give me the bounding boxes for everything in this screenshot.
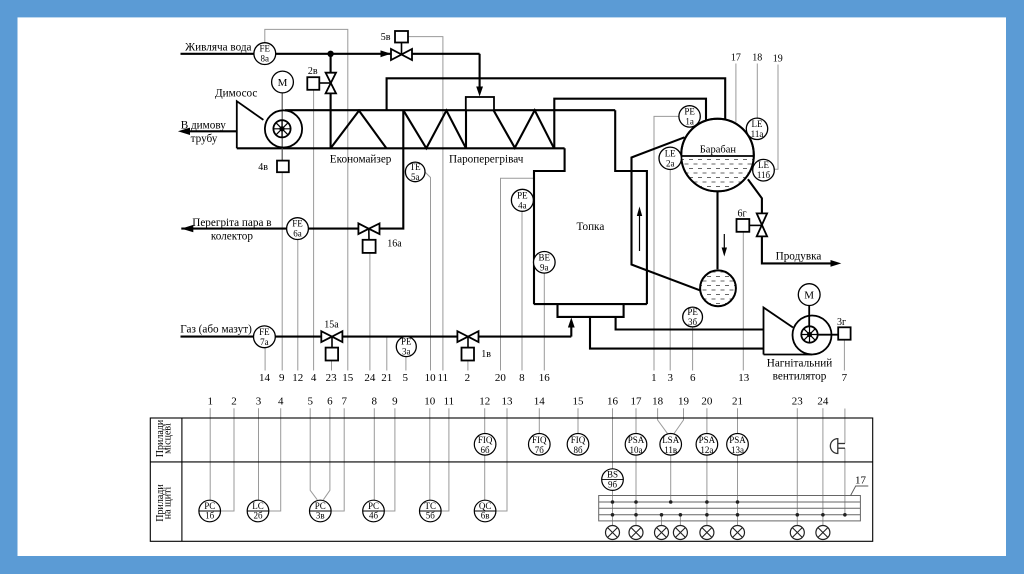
instrument FE 8a [254,43,276,65]
wire LSA-11v to bus [670,455,672,502]
signal bus frame [599,496,861,521]
instrument PSA 10a [625,434,647,456]
svg-text:PE: PE [684,106,695,116]
wire 20 from furnace corner [501,178,535,370]
bus node [736,500,740,504]
draft fan shaft to box 3g [818,334,839,336]
wire 6 from PE 3b [692,327,694,371]
svg-text:9а: 9а [540,262,549,272]
valve 5v with box above [391,31,412,60]
instrument PE 4a [511,189,533,211]
arrow burner up [568,318,575,328]
svg-text:3в: 3в [316,511,325,521]
rotated headers [155,419,174,522]
svg-text:14: 14 [259,372,271,384]
bus label 17 [851,486,869,496]
svg-text:1: 1 [651,372,657,384]
air duct bottom wall [590,317,764,349]
column 24 wire to bus [822,408,824,515]
instrument FIQ 8b [567,434,589,456]
bell symbol [830,439,837,454]
svg-text:7: 7 [842,372,848,384]
svg-text:1а: 1а [685,116,694,126]
bus node lower [634,513,638,517]
svg-text:13: 13 [502,396,514,408]
svg-text:1в: 1в [481,349,491,360]
feed water drop to injection box [479,54,481,92]
svg-text:15: 15 [342,372,354,384]
svg-text:10: 10 [424,396,436,408]
economizer inlet pipe lower [330,93,332,148]
actuator box 3g [838,327,850,339]
instrument LE 2a [659,147,681,169]
table frame [150,418,872,541]
injection box down pipe [465,110,467,148]
instrument FE 7a [254,326,276,348]
label FE 8a [260,44,271,64]
lamp 4 [673,526,687,540]
bus node lower [796,513,800,517]
column 7 wire to PC-3v side [331,408,344,511]
svg-text:18: 18 [752,53,762,64]
midline PC 4b [363,510,385,512]
duct step to furnace left wall [534,148,565,304]
bus node lower [843,513,847,517]
duct end wall and furnace right wall [615,110,647,304]
instrument PE 3b [683,307,703,327]
svg-text:16: 16 [539,372,551,384]
bus node lower [679,513,683,517]
smoke exhauster volute [265,110,302,147]
svg-text:13а: 13а [731,445,744,455]
downcomer flow arrowhead [722,248,727,257]
svg-text:BE: BE [539,252,551,262]
svg-text:5: 5 [307,396,313,408]
label PSA 12a [699,435,716,455]
column 10 wire to TC-5b [429,408,431,500]
label BS 9b [607,469,618,489]
svg-text:8б: 8б [573,445,583,455]
table row divider [150,461,872,463]
wire BS-9b to bus and lamp [612,490,614,525]
smoke exhauster housing [237,101,264,148]
svg-text:Перегріта пара в: Перегріта пара в [192,217,271,229]
svg-text:LE: LE [758,160,769,170]
motor M smoke exhauster [272,71,294,93]
instrument PC 1b [199,500,221,522]
label PSA 10a [628,435,645,455]
wire 24 from valve box 16a [369,253,371,371]
steam pipe drum to superheater [554,99,706,148]
wire 15 from FE 8a [265,29,348,370]
instrument QC 6v [474,500,496,522]
economizer coil zigzag [331,111,387,149]
valve 1v with box below [457,331,478,360]
svg-text:Продувка: Продувка [776,250,822,262]
flue duct bottom wall [237,147,565,149]
steam drum [681,119,754,192]
wire 10 from TE 5a [425,172,431,371]
column 8 wire to PC-4b [373,408,375,500]
svg-text:19: 19 [678,396,690,408]
bus node [669,500,673,504]
svg-text:6: 6 [690,372,696,384]
instrument TE 5a [405,162,425,182]
feed water pipe [181,53,392,55]
svg-text:колектор: колектор [211,230,253,242]
svg-text:19: 19 [773,54,783,65]
svg-text:17: 17 [855,475,867,487]
draft fan impeller [801,326,817,342]
wire 14 from FE 7a [264,348,266,371]
wire 19 to LE 11b [775,65,778,170]
arrow feed water [381,50,392,57]
column 9 wire to PC-4b side [384,408,395,511]
wire PSA-12a to bus and lamp [706,455,708,526]
superheated steam pipe to collector [181,228,358,230]
arrow to chimney [178,128,190,135]
svg-text:Газ (або мазут): Газ (або мазут) [180,324,252,336]
midline PC 3v [310,510,332,512]
svg-text:LE: LE [752,119,763,129]
svg-text:QC: QC [479,501,492,511]
label LE 11a [751,119,764,139]
lamp 1 [606,526,620,540]
label FE 7a [259,327,270,347]
bus node lower [611,513,615,517]
draft fan volute [793,316,832,355]
svg-text:16: 16 [607,396,619,408]
flow arrows on pipes [178,50,841,327]
svg-text:В димову: В димову [181,119,227,131]
column 18 wire V to LSA-11v [658,408,668,433]
bus node [634,500,638,504]
wire 18 to LE 11a [756,64,758,119]
lamp 2 [629,526,643,540]
column 13 wire to QC-6v side [496,408,507,511]
column 4 wire to LC-2b side [269,408,281,511]
svg-text:11а: 11а [751,129,764,139]
svg-text:PE: PE [687,307,698,317]
svg-text:21: 21 [381,372,392,384]
lamp 5 [700,526,714,540]
bus node [705,500,709,504]
wire 11 from valve box 5v [408,37,443,371]
draft fan housing [764,308,794,330]
instrument TC 5b [420,500,442,522]
svg-text:Економайзер: Економайзер [330,154,392,166]
table instrument circles [199,434,748,522]
blowdown pipe upper [748,179,762,213]
label PE 1a [684,106,695,126]
feed water pipe after valve 5v [412,53,480,55]
label LE 2a [665,148,676,168]
arrow superheated steam [181,225,193,232]
svg-text:LSA: LSA [662,435,680,445]
impeller hub [279,126,284,131]
instrument PC 3v [310,500,332,522]
lamp stub wire [679,515,681,526]
flue duct top wall [285,109,615,111]
superheater coil zigzag 1 [403,110,466,148]
draft fan motor link [808,306,810,327]
instrument PE 3a [396,337,416,357]
smoke exhauster impeller [273,120,290,137]
instrument FE 6a [287,218,309,240]
svg-text:PSA: PSA [729,435,746,445]
svg-text:3а: 3а [402,347,411,357]
svg-text:3б: 3б [688,317,698,327]
svg-text:Топка: Топка [576,221,604,233]
bus conductor line [599,501,861,503]
burner plenum box [558,304,624,317]
svg-text:3г: 3г [837,317,846,328]
midline LC 2b [247,510,269,512]
bus node lower [705,513,709,517]
svg-text:4: 4 [311,372,317,384]
bus node lower [660,513,664,517]
svg-text:3: 3 [256,396,262,408]
svg-text:2: 2 [231,396,237,408]
table header divider [181,418,183,541]
svg-text:PE: PE [517,190,528,200]
svg-text:FE: FE [260,44,271,54]
label PE 3a [401,337,412,357]
instrument LE 11b [753,159,775,181]
instrument BS 9b [602,469,624,491]
svg-text:PSA: PSA [628,435,645,445]
svg-text:4в: 4в [258,162,268,173]
svg-text:6: 6 [327,396,333,408]
valve 6g vertical with box left [737,213,768,236]
arrow into injection box [476,87,483,97]
svg-text:вентилятор: вентилятор [773,371,827,383]
svg-text:8: 8 [519,372,525,384]
svg-text:16а: 16а [387,239,402,250]
svg-text:М: М [804,290,814,302]
lamp 6 [731,526,745,540]
bus node lower [821,513,825,517]
svg-text:5: 5 [403,372,409,384]
svg-text:4: 4 [278,396,284,408]
column numbers [207,396,828,408]
injection header box [466,97,494,110]
column 2 wire to PC-1b side [221,408,235,511]
downcomer flow arrow shaft [723,234,725,250]
svg-text:12: 12 [292,372,303,384]
svg-text:Живляча вода: Живляча вода [185,41,251,53]
label LE 11b [757,160,771,180]
wire 8 from PE 4a [521,211,523,370]
wire 4 from valve box 2v [313,90,315,371]
drum water fill [682,156,754,191]
column 15 wire to FIQ-8b [577,408,579,433]
wire 7 continuation to bell and bus [844,409,846,444]
steam drum outline [681,119,754,192]
chimney pipe [182,130,237,132]
bus conductor line 2 [599,507,861,509]
air duct top wall [616,317,764,330]
svg-text:Нагнітальний: Нагнітальний [767,357,832,369]
svg-text:11: 11 [444,396,455,408]
svg-text:FIQ: FIQ [532,435,547,445]
wire 1 from PE 1a [654,116,679,370]
svg-text:LE: LE [665,148,676,158]
chimney / superheated steam arrow lines [182,130,237,132]
label TC 5b [425,501,437,521]
column 17 wire to PSA-10a [635,408,637,433]
svg-text:4б: 4б [369,511,379,521]
svg-text:3: 3 [668,372,674,384]
svg-text:17: 17 [731,53,741,64]
svg-text:5в: 5в [381,32,391,43]
arrow blowdown right [831,260,842,267]
table circle labels [204,435,746,521]
economizer outlet pipe to drum [387,78,726,119]
svg-text:6в: 6в [481,511,490,521]
svg-text:7б: 7б [535,445,545,455]
svg-text:BS: BS [607,469,618,479]
svg-text:LC: LC [252,501,264,511]
svg-text:13: 13 [738,372,750,384]
wire FIQ-6b to QC-6v [484,455,486,500]
svg-text:12: 12 [479,396,490,408]
svg-text:1б: 1б [205,511,215,521]
lower drum [700,270,736,306]
bus label leader [851,486,869,496]
svg-text:FE: FE [259,327,270,337]
svg-text:9: 9 [392,396,398,408]
wire 2 from valve box 1v [467,361,469,371]
column 14 wire to FIQ-7b [538,408,540,433]
svg-text:11: 11 [438,372,449,384]
svg-text:Барабан: Барабан [700,144,737,155]
riser flow arrowhead [637,207,642,217]
wire 13 from valve box 6g [742,232,744,371]
motor M draft fan [798,284,820,306]
label BE 9a [539,252,551,272]
bus conductor line 3 [599,514,861,516]
svg-text:трубу: трубу [191,133,218,145]
column 23 wire to bus [796,408,798,515]
svg-text:8а: 8а [261,54,270,64]
riser channel wall [632,137,700,290]
svg-text:12а: 12а [700,445,713,455]
label TE 5a [410,162,421,182]
midline BS 9b [602,479,624,481]
svg-text:11в: 11в [664,445,677,455]
lamp 3 [655,526,669,540]
svg-text:14: 14 [534,396,546,408]
superheater outlet pipe [380,110,404,228]
svg-text:6г: 6г [737,208,746,219]
svg-text:5а: 5а [411,172,420,182]
valve 2v vertical with box left [307,73,336,94]
column 11 wire to TC-5b side [441,408,449,511]
label LSA 11v [662,435,680,455]
svg-text:7: 7 [341,396,347,408]
wire 5 from PE 3a [405,357,407,371]
svg-text:8: 8 [372,396,378,408]
valve 15a with box below [321,331,342,360]
svg-text:місцеві: місцеві [163,423,174,454]
superheater coil zigzag 2 [494,110,554,148]
wire PSA-13a to bus and lamp [737,455,739,526]
midline QC 6v [474,510,496,512]
midline TC 5b [420,510,442,512]
svg-text:7а: 7а [260,337,269,347]
column 12 wire to FIQ-6b [484,408,486,433]
wire 12 from FE 6a [297,240,299,371]
svg-text:15: 15 [573,396,585,408]
column 5 wire V to PC-3v [310,408,317,500]
column 1 wire to PC-1b [209,408,211,500]
svg-text:Пароперегрівач: Пароперегрівач [449,154,524,166]
economizer inlet pipe upper [330,54,332,73]
svg-text:21: 21 [732,396,743,408]
label FIQ 7b [532,435,547,455]
instrument BE 9a [534,251,556,273]
impeller spokes [281,120,283,137]
label PC 4b [368,501,379,521]
wire 16 from BE 9a [543,273,545,370]
instrument PE 1a [679,106,700,127]
instrument LE 11a [746,118,767,139]
svg-text:FIQ: FIQ [478,435,493,445]
svg-text:15а: 15а [324,320,339,331]
lamp stub wire [796,515,798,526]
draft fan impeller spokes [809,326,811,342]
svg-text:23: 23 [326,372,338,384]
draft fan housing left wall [763,330,765,355]
svg-text:24: 24 [364,372,376,384]
label LC 2b [252,501,264,521]
svg-text:23: 23 [792,396,804,408]
motor letters [278,77,815,302]
column 21 wire to PSA-13a [737,408,739,433]
gas pipe [181,336,572,338]
svg-text:PC: PC [368,501,379,511]
bus node lower [736,513,740,517]
riser/downcomer small arrows [640,213,725,251]
svg-text:10: 10 [425,372,437,384]
motor shaft left fan [281,93,283,161]
column 16 wire to BS-9b [612,408,614,469]
svg-text:10а: 10а [630,445,643,455]
svg-text:М: М [278,77,288,89]
instrument PC 4b [363,500,385,522]
svg-text:5б: 5б [426,511,436,521]
wire 17 to drum [735,64,737,123]
bus connection dots [611,500,847,516]
svg-text:18: 18 [652,396,664,408]
downcomer pipe [716,192,718,269]
instrument labels [259,44,770,357]
label QC 6v [479,501,492,521]
label FIQ 8b [571,435,586,455]
svg-text:PE: PE [401,337,412,347]
instrument LC 2b [247,500,269,522]
svg-text:11б: 11б [757,170,771,180]
drum water level line [681,155,753,157]
label FIQ 6b [478,435,493,455]
instrument LSA 11v [660,434,682,456]
instrument PSA 13a [727,434,749,456]
svg-text:2б: 2б [253,511,263,521]
svg-text:20: 20 [495,372,507,384]
blowdown pipe lower [762,236,836,263]
label PE 3b [687,307,698,327]
